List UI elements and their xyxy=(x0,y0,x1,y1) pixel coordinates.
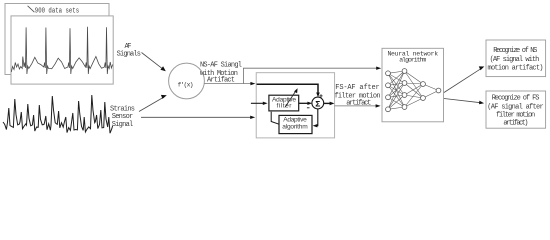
wire: thick primary path into summer xyxy=(257,84,318,93)
svg-text:algorithm: algorithm xyxy=(282,123,308,130)
adaptive algorithm box xyxy=(279,115,312,133)
neural network box xyxy=(382,48,444,122)
arrow: NN output to Recognize FS box xyxy=(444,99,480,103)
svg-text:Signal: Signal xyxy=(112,121,134,129)
svg-text:(AF signal with: (AF signal with xyxy=(490,56,540,64)
recognize FS box xyxy=(486,91,546,128)
arrow strains sensor to mixer xyxy=(139,97,164,112)
svg-text:(AF signal after: (AF signal after xyxy=(487,103,543,111)
neural network edges layer3-output xyxy=(423,84,439,98)
svg-text:algorithm: algorithm xyxy=(399,57,426,64)
wire: strains sensor to ANC box xyxy=(141,116,251,118)
wire: summer output (FS-AF) xyxy=(324,102,331,104)
wire: reference input into adaptive filter xyxy=(251,102,264,104)
svg-text:artifact): artifact) xyxy=(503,120,528,128)
svg-text:artifact: artifact xyxy=(346,99,371,107)
front sheet rectangle xyxy=(11,16,113,84)
recognize NS box xyxy=(486,40,546,77)
svg-text:900 data sets: 900 data sets xyxy=(35,8,79,16)
svg-text:Sensor: Sensor xyxy=(112,113,134,121)
wire: filter output to summer xyxy=(299,102,309,104)
summer circle sigma xyxy=(312,97,324,109)
ANC outer box xyxy=(256,73,334,138)
back sheet rectangle xyxy=(5,4,109,75)
wire: NS-AF branch to neural network box xyxy=(243,68,377,83)
label: 900 data sets tick xyxy=(28,6,35,12)
svg-text:Σ: Σ xyxy=(315,99,320,109)
arrow AF signals to mixer xyxy=(142,53,164,70)
neural network edges layer2-layer3 xyxy=(405,71,424,107)
svg-text:Artifact: Artifact xyxy=(207,76,235,84)
strains sensor waveform trace xyxy=(3,95,113,133)
arrow: NN output to Recognize NS box xyxy=(444,68,481,92)
AF waveform trace xyxy=(11,27,112,74)
mixer circle f'(x) xyxy=(169,63,205,99)
svg-text:motion artifact): motion artifact) xyxy=(488,65,544,73)
svg-text:NS-AF Siangl: NS-AF Siangl xyxy=(200,62,242,70)
svg-text:filter motion: filter motion xyxy=(496,112,535,120)
neural network edges layer1-layer2 xyxy=(388,71,405,109)
svg-text:Recognize of NS: Recognize of NS xyxy=(493,47,537,55)
svg-text:Recognize of FS: Recognize of FS xyxy=(492,94,540,102)
svg-text:filter: filter xyxy=(277,103,293,110)
svg-text:FS-AF after: FS-AF after xyxy=(335,84,379,92)
svg-text:Signals: Signals xyxy=(117,51,141,59)
wire: NS-AF output from mixer xyxy=(204,83,251,85)
plus sign at summer top input xyxy=(319,94,322,97)
wire: error feedback to adaptive algorithm xyxy=(316,109,318,126)
adaptive filter box xyxy=(269,95,299,111)
wire: algorithm update to filter xyxy=(271,112,279,124)
adjust arrow through filter box xyxy=(285,91,296,107)
minus sign at summer left input xyxy=(307,107,310,109)
neural network nodes xyxy=(386,69,441,112)
wire: FS-AF to neural network box xyxy=(335,105,377,107)
svg-text:f'(x): f'(x) xyxy=(178,81,194,88)
